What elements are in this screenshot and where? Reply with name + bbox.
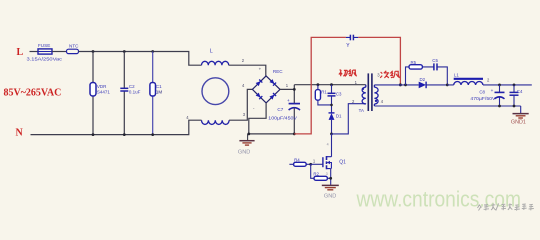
- inductor L1: [454, 73, 490, 85]
- svg-text:L: L: [210, 49, 213, 55]
- junction dot: [293, 133, 296, 136]
- wire drain node: [332, 104, 366, 157]
- svg-text:L: L: [17, 47, 24, 58]
- svg-text:GND: GND: [238, 149, 250, 155]
- resistor R4: [289, 158, 310, 167]
- junction dot: [293, 88, 296, 91]
- junction dot: [123, 50, 126, 53]
- svg-text:R4: R4: [294, 158, 300, 163]
- svg-text:470µF/50V: 470µF/50V: [470, 96, 495, 101]
- svg-text:+: +: [287, 98, 290, 103]
- resistor R2: [311, 164, 331, 180]
- wire fuse to NTC: [52, 51, 67, 53]
- ground GND1: [511, 106, 529, 126]
- fuse FUSE: [27, 43, 63, 63]
- wire choke to bridge top: [229, 65, 266, 76]
- svg-text:R5: R5: [411, 60, 417, 65]
- capacitor C4: [510, 85, 523, 106]
- snubber R5 C5: [404, 58, 447, 86]
- bridge rectifier REC: [242, 67, 289, 111]
- svg-text:GND1: GND1: [511, 120, 526, 126]
- svg-text:www.cntronics.com: www.cntronics.com: [356, 187, 521, 212]
- wire output plus: [447, 84, 532, 86]
- junction dot: [92, 50, 95, 53]
- varistor VDR: [90, 52, 110, 135]
- svg-text:C5: C5: [432, 58, 438, 63]
- svg-text:3.15A/250Vac: 3.15A/250Vac: [27, 57, 63, 63]
- svg-text:S4471: S4471: [97, 89, 111, 94]
- label ciji secondary (red): [380, 71, 400, 78]
- capacitor C8: [470, 85, 504, 106]
- junction dot: [247, 133, 250, 136]
- svg-text:1M: 1M: [156, 89, 163, 94]
- wire secondary ground rail: [374, 105, 520, 107]
- svg-text:C7: C7: [277, 107, 283, 112]
- svg-text:100µF/450V: 100µF/450V: [268, 115, 298, 120]
- svg-text:0.1uF: 0.1uF: [129, 89, 141, 94]
- svg-text:L1: L1: [454, 73, 459, 78]
- mosfet Q1: [323, 156, 346, 169]
- wire choke to bridge left: [229, 89, 252, 120]
- svg-text:N: N: [16, 127, 24, 138]
- svg-text:Q1: Q1: [339, 159, 346, 165]
- svg-text:+: +: [491, 88, 494, 93]
- junction dot: [513, 84, 516, 87]
- svg-text:REC: REC: [273, 69, 283, 74]
- svg-text:D1: D1: [336, 114, 342, 119]
- svg-text:GND: GND: [324, 194, 336, 200]
- capacitor C2: [120, 52, 140, 135]
- wire bridge negative: [249, 103, 266, 134]
- diode D1: [329, 113, 343, 134]
- wire primary plus rail: [294, 84, 366, 86]
- svg-text:R1: R1: [321, 90, 327, 95]
- junction dot: [513, 105, 516, 108]
- wire source: [330, 169, 332, 186]
- common mode choke L: [186, 49, 246, 125]
- junction dot: [498, 105, 501, 108]
- svg-text:3: 3: [326, 172, 328, 176]
- capacitor C3: [328, 83, 343, 113]
- ground GND bridge: [238, 134, 255, 156]
- resistor R1: [315, 83, 331, 105]
- transformer TA: [359, 72, 384, 113]
- junction dot: [446, 84, 449, 87]
- capacitor C7: [268, 98, 300, 134]
- junction dot: [330, 104, 333, 107]
- diode D2: [419, 77, 448, 88]
- svg-text:D2: D2: [420, 77, 426, 82]
- junction dot: [309, 163, 312, 166]
- wire L input: [30, 51, 39, 53]
- junction dot: [151, 50, 154, 53]
- thermistor NTC: [67, 43, 80, 53]
- wire top rail: [79, 52, 202, 66]
- wire secondary top: [374, 84, 418, 86]
- svg-text:R2: R2: [313, 172, 319, 177]
- svg-text:FUSE: FUSE: [38, 43, 50, 48]
- Y capacitor red path: [294, 35, 400, 134]
- junction dot: [399, 83, 402, 86]
- wire bridge plus output: [280, 85, 294, 104]
- svg-text:C8: C8: [479, 90, 485, 95]
- svg-text:NTC: NTC: [69, 43, 79, 48]
- watermark chinese gray: [478, 203, 534, 210]
- junction dot: [92, 133, 95, 136]
- svg-text:+: +: [259, 67, 262, 72]
- junction dot: [151, 133, 154, 136]
- junction dot: [123, 133, 126, 136]
- svg-text:85V~265VAC: 85V~265VAC: [4, 88, 62, 99]
- ground GND Q1: [322, 185, 339, 199]
- resistor C1 1M: [150, 52, 163, 135]
- wire gate: [311, 163, 323, 165]
- junction dot: [329, 177, 332, 180]
- junction dot: [498, 84, 501, 87]
- svg-text:4: 4: [327, 142, 329, 146]
- wire N rail: [31, 120, 202, 134]
- junction dot: [330, 133, 333, 136]
- wire primary ground rail: [249, 133, 294, 135]
- label chuji primary (red): [339, 69, 357, 76]
- svg-text:C3: C3: [336, 91, 342, 96]
- svg-text:TA: TA: [359, 108, 364, 113]
- svg-text:C4: C4: [517, 89, 523, 94]
